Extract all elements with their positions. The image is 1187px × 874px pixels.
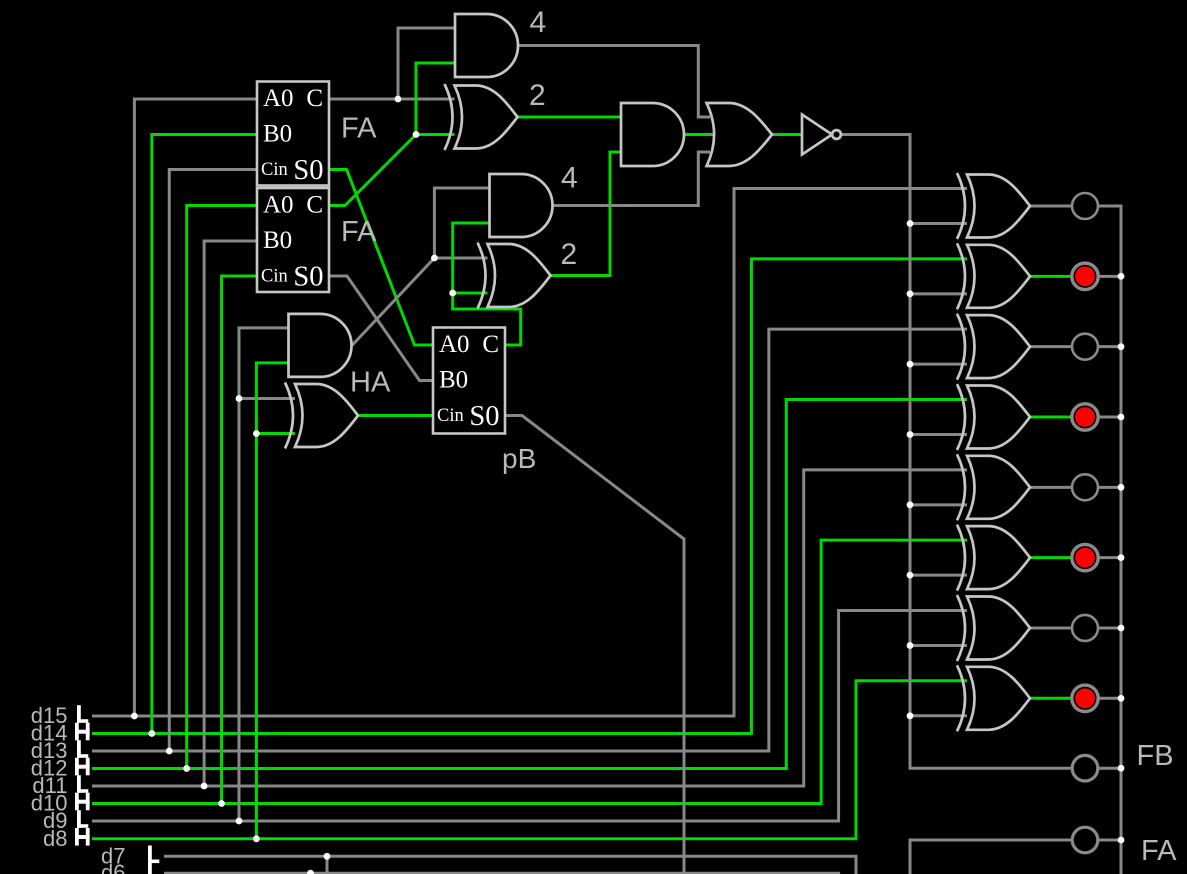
wire FA1.C to AND1 and XOR1 — [329, 28, 455, 99]
output port FA — [1072, 827, 1098, 853]
AND gate U5 (HA) — [289, 314, 352, 377]
wire net d13: input row, riser and XOR3 top input — [92, 329, 967, 751]
input d6 value L — [148, 862, 159, 874]
svg-text:C: C — [306, 192, 323, 219]
XOR gate X6 (output column) — [957, 525, 1030, 591]
junction FA2.C — [413, 131, 420, 138]
wire pB.S0 long run down — [506, 416, 684, 874]
wire net d8: input row, riser and XOR8 top input — [92, 681, 967, 839]
LED D5 (off) — [1072, 474, 1098, 500]
wire net d10: input row, riser and XOR6 top input — [92, 540, 967, 803]
OR gate U8 — [707, 103, 772, 166]
svg-text:S0: S0 — [293, 262, 323, 293]
XOR gate U4 (2) — [478, 243, 551, 309]
wire NOT out: bus to XOR bottom inputs and FB — [841, 135, 1073, 769]
svg-text:FA: FA — [341, 113, 377, 145]
junction bus-right 4 — [1118, 414, 1125, 421]
input d9 value L — [77, 810, 88, 828]
bus width label 4 (U3) — [561, 162, 578, 195]
input d11 value L — [77, 775, 88, 793]
input d13 label — [31, 738, 68, 763]
XOR gate X4 (output column) — [957, 384, 1030, 450]
wire net d14: input row, riser and XOR2 top input — [92, 259, 967, 734]
wire FA2.S0 to pB.B0 — [329, 276, 433, 381]
svg-text:A0: A0 — [263, 192, 294, 219]
XOR gate U6 (HA) — [285, 383, 358, 449]
input d15 value L — [77, 705, 88, 723]
svg-text:pB: pB — [502, 443, 536, 474]
XOR gate X7 (output column) — [957, 595, 1030, 661]
XOR gate U2 (2) — [445, 84, 518, 150]
junction bus-right FA — [1118, 837, 1125, 844]
label FA output — [1141, 835, 1177, 867]
LED D7 (off) — [1072, 615, 1098, 641]
wire net d12: input row, riser and XOR4 top input — [92, 399, 967, 768]
wire d14 branch to FA1.B0 — [152, 135, 257, 734]
junction d11 at column — [201, 783, 208, 790]
junction bus/XOR1 — [907, 220, 914, 227]
junction d8 at column — [253, 835, 260, 842]
bus width label 2 (U2) — [529, 79, 546, 112]
input d14 value H — [75, 723, 90, 741]
junction bus-right 8 — [1118, 695, 1125, 702]
junction d8/HA-XOR — [253, 430, 260, 437]
svg-text:S0: S0 — [293, 155, 323, 186]
output port FB — [1072, 755, 1098, 781]
wire d15 branch to FA1.A0 — [134, 99, 257, 716]
svg-text:d6: d6 — [101, 860, 125, 874]
svg-text:A0: A0 — [263, 85, 294, 112]
svg-text:4: 4 — [561, 162, 578, 195]
svg-text:B0: B0 — [263, 227, 292, 254]
wire OR out to NOT input — [772, 133, 802, 136]
LED D8 (on) — [1072, 685, 1098, 711]
XOR gate X2 (output column) — [957, 243, 1030, 309]
LED D2 (on) — [1072, 263, 1098, 289]
LED D1 (off) — [1072, 193, 1098, 219]
bus width label 4 (U1) — [530, 6, 547, 39]
full adder pB — [433, 328, 505, 434]
junction bus/XOR7 — [907, 642, 914, 649]
input d13 value L — [77, 740, 88, 758]
junction bus/XOR3 — [907, 361, 914, 368]
junction bus-right 6 — [1118, 554, 1125, 561]
svg-text:2: 2 — [529, 79, 546, 112]
input d9 label — [43, 808, 67, 833]
bus width label 2 (U4) — [561, 238, 578, 271]
input d10 value H — [75, 793, 90, 811]
input d8 label — [43, 826, 67, 851]
svg-text:Cin: Cin — [437, 406, 464, 426]
input d12 label — [31, 756, 68, 781]
input d10 label — [31, 791, 68, 816]
svg-text:Cin: Cin — [261, 160, 288, 180]
AND gate U7 — [621, 103, 684, 166]
wire net d9: input row, riser and XOR7 top input — [92, 610, 967, 821]
XOR gate X8 (output column) — [957, 665, 1030, 731]
LED D6 (on) — [1072, 544, 1098, 570]
input d14 label — [31, 721, 68, 746]
junction bus-right FB — [1118, 765, 1125, 772]
wire pB.C to AND2 and XOR2 bottom inputs — [453, 223, 521, 345]
svg-text:B0: B0 — [439, 367, 468, 394]
junction bus/XOR6 — [907, 572, 914, 579]
junction bus-right 7 — [1118, 625, 1125, 632]
svg-text:4: 4 — [530, 6, 547, 39]
label FA (lower block) — [341, 216, 377, 248]
XOR gate X1 (output column) — [957, 173, 1030, 239]
wire AND3 out to OR middle input — [685, 133, 714, 136]
label FA (upper block) — [341, 113, 377, 145]
junction FA1.C — [395, 96, 402, 103]
svg-text:2: 2 — [561, 238, 578, 271]
input d8 value H — [75, 828, 90, 846]
LED D3 (off) — [1072, 334, 1098, 360]
AND gate U3 (4) — [490, 174, 553, 237]
full adder FA1 — [257, 82, 329, 187]
junction HA-AND out — [431, 255, 438, 262]
wire AND1 out to OR top input — [518, 46, 710, 118]
wire AND2 out to OR bottom input — [553, 152, 711, 206]
wire FA2.C to AND1 and XOR1 bottom inputs — [329, 63, 455, 206]
svg-text:S0: S0 — [469, 401, 499, 432]
junction d9 at column — [236, 818, 243, 825]
wire net d11: input row, riser and XOR5 top input — [92, 470, 967, 786]
wire d10 branch to FA2.Cin — [222, 276, 257, 804]
junction bus-right 2 — [1118, 273, 1125, 280]
input d6 label — [101, 860, 125, 874]
junction d6 — [307, 870, 314, 874]
junction d9/HA-XOR — [236, 395, 243, 402]
full adder FA2 — [257, 188, 329, 293]
junction bus-right 3 — [1118, 343, 1125, 350]
wire d11 branch to FA2.B0 — [204, 241, 257, 786]
wire HA-XOR out to pB.Cin — [358, 414, 433, 417]
junction d10 at column — [218, 800, 225, 807]
input d7 value L — [148, 846, 159, 864]
input d7 label — [101, 843, 125, 868]
junction bus/XOR2 — [907, 290, 914, 297]
label FB output — [1137, 740, 1174, 772]
svg-text:HA: HA — [350, 367, 391, 399]
junction bus/XOR5 — [907, 501, 914, 508]
wire d8 branch to HA gates — [256, 363, 295, 839]
wire d12 branch to FA2.A0 — [187, 206, 257, 769]
junction d7 — [324, 853, 331, 860]
junction d13 at column — [166, 748, 173, 755]
junction d14 at column — [148, 730, 155, 737]
junction d15 at column — [131, 713, 138, 720]
junction d12 at column — [183, 765, 190, 772]
junction bus/XOR4 — [907, 431, 914, 438]
XOR gate X3 (output column) — [957, 314, 1030, 380]
svg-text:FB: FB — [1137, 740, 1174, 772]
junction bus-right 5 — [1118, 484, 1125, 491]
svg-text:FA: FA — [1141, 835, 1177, 867]
wire XOR1 out to AND3 top input — [518, 116, 621, 119]
input d11 label — [32, 773, 67, 798]
wire d13 branch to FA1.Cin — [169, 170, 257, 752]
svg-text:A0: A0 — [439, 331, 470, 358]
junction bus/XOR8 — [907, 712, 914, 719]
label HA — [350, 367, 391, 399]
wire FA1.S0 to pB.A0 — [329, 170, 433, 346]
AND gate U1 (4) — [455, 14, 518, 77]
svg-text:FA: FA — [341, 216, 377, 248]
wire net d6 — [164, 873, 839, 874]
wire XOR2 out to AND3 bottom input — [550, 152, 621, 276]
input d12 value H — [75, 758, 90, 776]
wire right bus collecting LED outputs — [1030, 206, 1121, 874]
wire net d7 — [164, 856, 856, 874]
svg-text:d8: d8 — [43, 826, 67, 851]
XOR gate X5 (output column) — [957, 454, 1030, 520]
label pB — [502, 443, 536, 474]
wire d9 branch to HA gates — [239, 328, 295, 821]
svg-text:C: C — [482, 331, 499, 358]
svg-text:Cin: Cin — [261, 267, 288, 287]
NOT gate U9 — [802, 115, 841, 155]
wire FA output row — [910, 840, 1073, 874]
junction pB.C — [449, 290, 456, 297]
wire HA-AND out to AND2 and XOR2 top inputs — [352, 188, 490, 345]
wire net d15: input row, riser and XOR1 top input — [92, 189, 967, 717]
svg-text:B0: B0 — [263, 121, 292, 148]
input d15 label — [31, 703, 68, 728]
LED D4 (on) — [1072, 404, 1098, 430]
svg-text:C: C — [306, 85, 323, 112]
